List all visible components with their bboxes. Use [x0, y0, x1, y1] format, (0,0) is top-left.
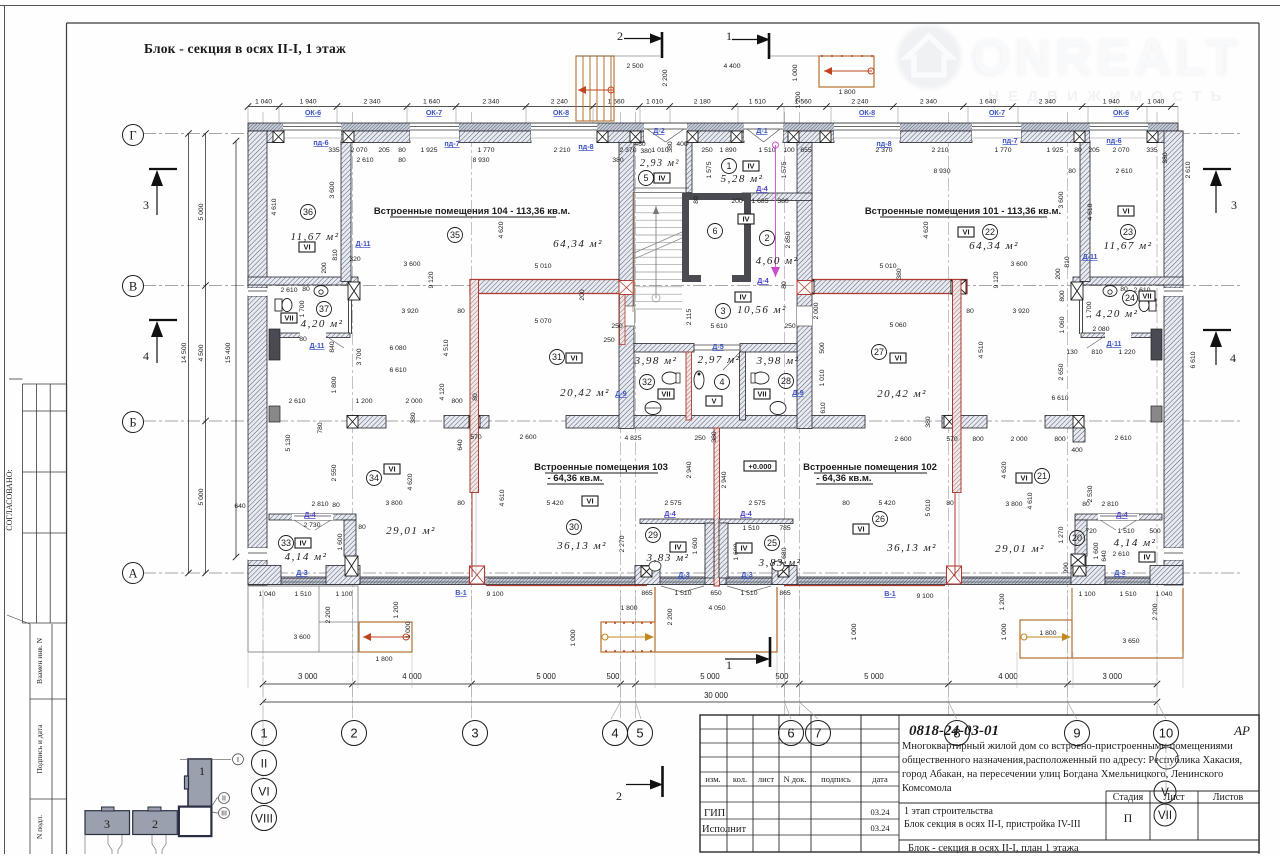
svg-text:2 610: 2 610 [356, 157, 373, 164]
svg-text:200: 200 [321, 262, 328, 274]
fixtures bathroom 24 [1103, 286, 1117, 297]
svg-text:2 370: 2 370 [619, 147, 636, 154]
svg-text:IV: IV [747, 162, 754, 171]
svg-text:2 200: 2 200 [325, 606, 332, 623]
svg-text:4 610: 4 610 [499, 489, 506, 506]
svg-text:34: 34 [369, 473, 379, 483]
svg-text:1 800: 1 800 [331, 376, 338, 393]
svg-text:4 610: 4 610 [1087, 203, 1094, 220]
svg-text:6 610: 6 610 [389, 367, 406, 374]
svg-text:36: 36 [303, 207, 313, 217]
svg-text:2 340: 2 340 [363, 99, 380, 106]
svg-text:1 600: 1 600 [337, 533, 344, 550]
svg-text:2 610: 2 610 [288, 398, 305, 405]
svg-text:03.24: 03.24 [870, 807, 890, 817]
svg-text:2: 2 [350, 726, 357, 741]
svg-text:5 610: 5 610 [710, 323, 727, 330]
svg-text:VI: VI [1122, 207, 1129, 216]
svg-text:380: 380 [667, 141, 674, 153]
svg-text:V: V [1161, 787, 1169, 799]
svg-text:5 010: 5 010 [534, 263, 551, 270]
svg-text:2 210: 2 210 [553, 147, 570, 154]
svg-text:3 000: 3 000 [1103, 672, 1123, 681]
svg-text:III: III [221, 811, 227, 818]
svg-text:город Абакан, на пересечении у: город Абакан, на пересечении улиц Богдан… [902, 769, 1223, 780]
svg-text:650: 650 [710, 590, 722, 597]
svg-text:9 100: 9 100 [916, 593, 933, 600]
svg-text:1 100: 1 100 [1078, 591, 1095, 598]
svg-text:380: 380 [1162, 152, 1169, 164]
svg-text:4: 4 [719, 377, 724, 387]
svg-text:5 070: 5 070 [534, 318, 551, 325]
svg-text:1 800: 1 800 [1039, 630, 1056, 637]
svg-text:1 640: 1 640 [979, 99, 996, 106]
svg-text:3 600: 3 600 [329, 181, 336, 198]
svg-text:Б: Б [129, 416, 136, 430]
svg-text:4 000: 4 000 [998, 672, 1018, 681]
svg-text:20,42 м²: 20,42 м² [560, 387, 610, 399]
svg-text:общественного назначения,распо: общественного назначения,расположенный п… [902, 755, 1242, 766]
svg-text:4 120: 4 120 [439, 383, 446, 400]
svg-text:VII: VII [1142, 292, 1151, 301]
svg-text:2 200: 2 200 [662, 69, 669, 86]
svg-text:4 510: 4 510 [978, 341, 985, 358]
svg-text:400: 400 [1071, 447, 1083, 454]
svg-text:1 100: 1 100 [335, 591, 352, 598]
svg-text:2 610: 2 610 [280, 287, 297, 294]
svg-text:6: 6 [712, 226, 717, 236]
svg-text:200: 200 [1055, 268, 1062, 280]
magenta door dim line [775, 145, 777, 277]
svg-text:IV: IV [674, 543, 681, 552]
title block left table [700, 728, 899, 730]
svg-text:Д-5: Д-5 [712, 342, 724, 351]
svg-text:64,34 м²: 64,34 м² [553, 238, 603, 250]
svg-text:800: 800 [1059, 290, 1066, 302]
svg-text:2 610: 2 610 [1185, 161, 1192, 178]
svg-text:IV: IV [658, 174, 665, 183]
svg-text:ONREALT: ONREALT [973, 29, 1239, 85]
svg-text:29,01 м²: 29,01 м² [995, 543, 1045, 555]
red band walls at V axis [470, 280, 634, 294]
svg-text:2 200: 2 200 [667, 608, 674, 625]
room labels [301, 205, 316, 220]
faint circle under axis 10 [1156, 747, 1178, 769]
svg-text:IV: IV [1143, 553, 1150, 562]
svg-text:1 270: 1 270 [1058, 526, 1065, 543]
svg-text:4 620: 4 620 [1001, 461, 1008, 478]
svg-text:8 930: 8 930 [472, 157, 489, 164]
svg-text:2 340: 2 340 [1039, 99, 1056, 106]
svg-text:2 575: 2 575 [748, 500, 765, 507]
key plan bottom tabs [108, 835, 112, 854]
sheet frame [0, 5, 1280, 7]
svg-text:80: 80 [693, 196, 700, 204]
fixtures 29/25 [649, 561, 661, 571]
svg-text:4 620: 4 620 [407, 473, 414, 490]
svg-text:80: 80 [457, 500, 465, 507]
svg-text:1 800: 1 800 [838, 89, 855, 96]
svg-text:1 510: 1 510 [294, 591, 311, 598]
svg-text:335: 335 [1146, 147, 1158, 154]
svg-text:36,13 м²: 36,13 м² [556, 540, 607, 552]
svg-text:655: 655 [800, 147, 812, 154]
svg-text:VI: VI [857, 525, 864, 534]
svg-text:1 685: 1 685 [751, 198, 768, 205]
svg-text:460: 460 [634, 141, 646, 148]
red vertical joint walls [470, 280, 479, 493]
porch top-right (orange) [819, 56, 874, 87]
svg-text:1 200: 1 200 [999, 593, 1006, 610]
svg-text:Стадия: Стадия [1113, 792, 1144, 803]
left outer wall [248, 131, 267, 288]
svg-text:1 940: 1 940 [300, 99, 317, 106]
svg-text:2 810: 2 810 [311, 501, 328, 508]
svg-text:80: 80 [966, 308, 974, 315]
svg-text:3 920: 3 920 [1012, 308, 1029, 315]
svg-text:VI: VI [258, 785, 269, 799]
svg-text:3: 3 [143, 198, 149, 212]
svg-text:ОК-6: ОК-6 [305, 108, 321, 117]
svg-text:3 600: 3 600 [403, 261, 420, 268]
svg-text:3 600: 3 600 [293, 634, 310, 641]
svg-text:24: 24 [1125, 293, 1135, 303]
svg-text:В: В [129, 280, 137, 294]
fixtures bathroom 28 [753, 372, 769, 384]
svg-text:640: 640 [234, 503, 246, 510]
svg-text:23: 23 [1123, 227, 1133, 237]
svg-text:380: 380 [925, 416, 932, 428]
svg-text:4: 4 [611, 726, 618, 741]
stair top-left (orange) [576, 56, 614, 121]
svg-text:2 240: 2 240 [851, 99, 868, 106]
svg-text:Д-9: Д-9 [615, 389, 627, 398]
svg-text:ОК-8: ОК-8 [553, 108, 569, 117]
svg-text:320: 320 [349, 256, 361, 263]
svg-text:10,56 м²: 10,56 м² [737, 304, 787, 316]
svg-text:1 640: 1 640 [423, 99, 440, 106]
svg-text:VI: VI [894, 354, 901, 363]
svg-text:VII: VII [284, 314, 293, 323]
fixtures bathroom 37 [314, 286, 328, 297]
svg-text:29: 29 [648, 530, 658, 540]
svg-text:780: 780 [317, 422, 324, 434]
svg-text:80: 80 [472, 393, 479, 401]
left stamp table lower [30, 698, 67, 700]
svg-text:3 650: 3 650 [1122, 638, 1139, 645]
svg-text:5 000: 5 000 [700, 672, 720, 681]
svg-text:2 210: 2 210 [931, 147, 948, 154]
key plan block 3 [85, 811, 130, 835]
svg-text:80: 80 [1068, 168, 1076, 175]
svg-text:205: 205 [378, 147, 390, 154]
svg-text:1 510: 1 510 [742, 525, 759, 532]
svg-text:1 этап строительства: 1 этап строительства [904, 806, 993, 817]
svg-text:1 510: 1 510 [749, 99, 766, 106]
svg-text:80: 80 [302, 286, 310, 293]
door swings bottom centre [661, 586, 682, 592]
svg-text:3 600: 3 600 [1010, 261, 1027, 268]
svg-text:2 070: 2 070 [1112, 147, 1129, 154]
svg-text:7: 7 [814, 726, 821, 741]
svg-text:VI: VI [1020, 474, 1027, 483]
svg-text:380: 380 [410, 412, 417, 424]
svg-text:2 500: 2 500 [626, 63, 643, 70]
+0.000 mark [744, 461, 776, 471]
svg-text:800: 800 [1054, 436, 1066, 443]
svg-text:28: 28 [781, 376, 791, 386]
svg-text:VII: VII [757, 390, 766, 399]
svg-text:4 825: 4 825 [624, 435, 641, 442]
top wall inner piers [248, 131, 283, 143]
svg-text:2 940: 2 940 [721, 471, 728, 488]
svg-text:2 000: 2 000 [405, 398, 422, 405]
svg-text:2 850: 2 850 [785, 231, 792, 248]
svg-text:ГИП: ГИП [704, 808, 726, 819]
svg-text:130: 130 [1066, 349, 1078, 356]
svg-text:5 000: 5 000 [536, 672, 556, 681]
svg-text:250: 250 [603, 337, 615, 344]
svg-text:3 000: 3 000 [298, 672, 318, 681]
svg-text:дата: дата [872, 774, 888, 784]
svg-text:570: 570 [946, 436, 958, 443]
svg-text:03.24: 03.24 [870, 823, 890, 833]
svg-text:Исполнит: Исполнит [702, 824, 746, 835]
svg-text:8: 8 [953, 726, 960, 741]
axis dash-dot lines vertical [262, 112, 264, 718]
svg-text:3: 3 [720, 306, 725, 316]
svg-text:2 070: 2 070 [350, 147, 367, 154]
svg-text:2 200: 2 200 [1152, 603, 1159, 620]
svg-text:1 575: 1 575 [706, 161, 713, 178]
svg-text:5 010: 5 010 [925, 499, 932, 516]
svg-text:I: I [237, 757, 239, 764]
svg-text:4 620: 4 620 [498, 221, 505, 238]
svg-text:640: 640 [1101, 550, 1108, 562]
svg-text:26: 26 [875, 514, 885, 524]
svg-text:4 050: 4 050 [708, 605, 725, 612]
svg-text:- 64,36 кв.м.: - 64,36 кв.м. [816, 473, 871, 484]
svg-text:пд-8: пд-8 [578, 142, 593, 151]
roman axis circles left [262, 718, 264, 826]
svg-text:31: 31 [552, 352, 562, 362]
svg-text:5 130: 5 130 [285, 434, 292, 451]
left axis circles [123, 125, 144, 146]
svg-text:3: 3 [471, 726, 478, 741]
svg-text:VI: VI [962, 228, 969, 237]
svg-text:Д-4: Д-4 [304, 510, 316, 519]
svg-text:1 925: 1 925 [1046, 147, 1063, 154]
svg-text:1 060: 1 060 [1059, 316, 1066, 333]
bottom axis circles [252, 721, 277, 746]
bathroom 20/24 right mirror [1075, 514, 1162, 520]
svg-text:80: 80 [358, 524, 366, 531]
svg-text:1 510: 1 510 [674, 590, 691, 597]
wall pilasters dark [269, 329, 280, 360]
svg-text:810: 810 [1064, 256, 1071, 268]
svg-text:80: 80 [332, 502, 340, 509]
svg-text:2 000: 2 000 [813, 302, 820, 319]
svg-text:пд-8: пд-8 [876, 139, 891, 148]
svg-text:2 610: 2 610 [1114, 435, 1131, 442]
axis line bends to circles [611, 702, 621, 719]
svg-text:IV: IV [742, 215, 749, 224]
svg-text:30: 30 [569, 522, 579, 532]
svg-text:1 000: 1 000 [1001, 623, 1008, 640]
porch bottom-left [248, 586, 358, 652]
svg-text:Д-4: Д-4 [664, 509, 676, 518]
svg-text:- 64,36 кв.м.: - 64,36 кв.м. [547, 473, 602, 484]
svg-text:22: 22 [985, 227, 995, 237]
svg-text:пд-6: пд-6 [1106, 136, 1121, 145]
elevator shaft [682, 193, 751, 282]
svg-text:29,01 м²: 29,01 м² [386, 525, 436, 537]
svg-text:5 000: 5 000 [198, 203, 205, 220]
svg-text:4: 4 [1230, 351, 1236, 365]
svg-text:2 810: 2 810 [1101, 501, 1118, 508]
svg-text:V: V [711, 397, 716, 406]
svg-text:80: 80 [299, 336, 307, 343]
key plan leaders [180, 758, 231, 760]
svg-text:изм.: изм. [705, 774, 720, 784]
svg-text:1 000: 1 000 [570, 629, 577, 646]
svg-text:5 010: 5 010 [879, 263, 896, 270]
svg-text:785: 785 [779, 525, 791, 532]
svg-text:Взамен инв. N: Взамен инв. N [35, 637, 44, 684]
svg-text:1 575: 1 575 [781, 161, 788, 178]
fixtures bathroom 32 [662, 372, 678, 384]
section markers left 3,4 [149, 168, 177, 170]
svg-text:П: П [1124, 811, 1133, 825]
svg-text:Д-4: Д-4 [740, 509, 752, 518]
svg-text:IV: IV [299, 539, 306, 548]
axis dash-dot lines horizontal [143, 133, 1240, 135]
svg-text:3 920: 3 920 [401, 308, 418, 315]
svg-text:1 000: 1 000 [851, 623, 858, 640]
svg-text:1: 1 [199, 764, 205, 778]
svg-text:II: II [222, 796, 226, 803]
svg-text:3,83 м²: 3,83 м² [758, 557, 802, 569]
svg-text:2 340: 2 340 [482, 99, 499, 106]
svg-text:5 000: 5 000 [864, 672, 884, 681]
svg-text:36,13 м²: 36,13 м² [886, 542, 937, 554]
svg-text:2 600: 2 600 [519, 434, 536, 441]
svg-text:6 610: 6 610 [1190, 351, 1197, 368]
svg-text:+0.000: +0.000 [748, 462, 771, 471]
svg-text:5: 5 [636, 726, 643, 741]
svg-text:1 040: 1 040 [258, 591, 275, 598]
svg-text:250: 250 [611, 323, 623, 330]
svg-text:4,14 м²: 4,14 м² [285, 551, 328, 563]
porch bottom-right [1071, 588, 1073, 620]
svg-text:VII: VII [661, 390, 670, 399]
bathroom 37 walls [348, 282, 360, 300]
svg-text:Д-11: Д-11 [1082, 252, 1097, 261]
svg-text:80: 80 [398, 147, 406, 154]
svg-text:5 060: 5 060 [889, 322, 906, 329]
svg-text:1 040: 1 040 [1147, 99, 1164, 106]
svg-text:2 730: 2 730 [303, 522, 320, 529]
title block [700, 715, 1259, 852]
svg-text:1 510: 1 510 [758, 147, 775, 154]
svg-text:2 180: 2 180 [694, 99, 711, 106]
svg-text:IV: IV [740, 544, 747, 553]
svg-text:Д-4: Д-4 [757, 276, 769, 285]
fixtures bathroom 4 [694, 371, 704, 389]
svg-text:20,42 м²: 20,42 м² [877, 388, 927, 400]
svg-text:15 400: 15 400 [225, 342, 232, 363]
svg-text:2 575: 2 575 [664, 500, 681, 507]
svg-text:200: 200 [731, 198, 743, 205]
svg-text:Комсомола: Комсомола [902, 783, 952, 794]
interior vertical walls upper [341, 143, 351, 282]
svg-text:Д-9: Д-9 [792, 388, 804, 397]
svg-text:Д-11: Д-11 [355, 239, 370, 248]
svg-text:АР: АР [1233, 723, 1250, 738]
svg-text:4 400: 4 400 [723, 63, 740, 70]
svg-text:ОК-7: ОК-7 [989, 108, 1005, 117]
svg-text:2: 2 [764, 233, 769, 243]
red X at stair wall junction [619, 281, 634, 295]
svg-text:Д-4: Д-4 [756, 184, 768, 193]
svg-text:Г: Г [129, 129, 136, 143]
svg-text:865: 865 [779, 590, 791, 597]
svg-text:2 610: 2 610 [1112, 551, 1129, 558]
svg-text:2 650: 2 650 [1058, 363, 1065, 380]
top wall outer leaf [248, 123, 1178, 131]
svg-text:3,83 м²: 3,83 м² [646, 552, 690, 564]
svg-text:500: 500 [1149, 528, 1161, 535]
svg-text:80: 80 [398, 157, 406, 164]
svg-text:Встроенные помещения 103: Встроенные помещения 103 [534, 462, 668, 473]
svg-text:3 800: 3 800 [385, 500, 402, 507]
svg-text:2 370: 2 370 [875, 147, 892, 154]
svg-text:Д-11: Д-11 [1106, 339, 1121, 348]
svg-text:VII: VII [1158, 810, 1172, 822]
svg-text:1: 1 [726, 29, 732, 43]
svg-text:Блок - секция в осях II-I, пл: Блок - секция в осях II-I, план 1 этажа [908, 843, 1079, 854]
svg-text:3,98 м²: 3,98 м² [634, 355, 678, 367]
svg-text:Встроенные помещения 101 - 11: Встроенные помещения 101 - 113,36 кв.м. [865, 206, 1061, 217]
svg-text:2 530: 2 530 [1087, 485, 1094, 502]
svg-text:4,60 м²: 4,60 м² [756, 255, 799, 267]
svg-text:Встроенные помещения 104 - 113: Встроенные помещения 104 - 113,36 кв.м. [374, 206, 570, 217]
top wall windows [283, 124, 341, 141]
svg-text:35: 35 [450, 230, 460, 240]
svg-text:5 420: 5 420 [546, 500, 563, 507]
svg-text:Листов: Листов [1213, 792, 1244, 803]
svg-text:Д-11: Д-11 [309, 341, 324, 350]
svg-text:1 700: 1 700 [299, 300, 306, 317]
centre bathrooms row walls [634, 344, 694, 353]
svg-text:4 610: 4 610 [271, 198, 278, 215]
svg-text:80: 80 [842, 500, 850, 507]
svg-text:800: 800 [972, 436, 984, 443]
svg-text:2,97 м²: 2,97 м² [698, 354, 741, 366]
svg-text:5,28 м²: 5,28 м² [721, 173, 764, 185]
svg-text:80: 80 [1120, 286, 1128, 293]
entrance vestibule partitions [686, 143, 692, 193]
section markers right 3,4 [1203, 168, 1231, 170]
red expansion-joint columns bottom [470, 566, 485, 584]
bottom wall [248, 577, 1183, 585]
svg-text:2 115: 2 115 [686, 309, 693, 326]
svg-text:380: 380 [896, 268, 903, 280]
svg-text:2: 2 [152, 817, 158, 831]
svg-text:N подл.: N подл. [35, 815, 44, 839]
svg-text:Подпись и дата: Подпись и дата [35, 724, 44, 774]
svg-text:500: 500 [606, 672, 620, 681]
